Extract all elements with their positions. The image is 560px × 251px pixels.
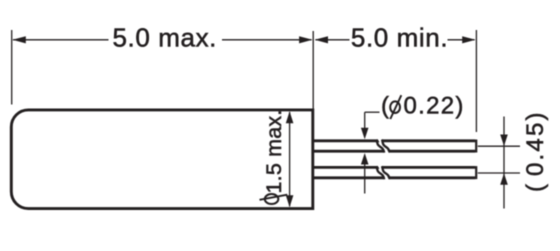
phi symbol drawn bbox=[265, 194, 279, 204]
dimension phi 1.5 max. (vertical, inside body) bbox=[260, 109, 294, 207]
svg-text:0.22): 0.22) bbox=[404, 92, 465, 119]
extension line middle (shared) bbox=[312, 31, 314, 109]
dimension 5.0 max. bbox=[12, 22, 312, 52]
lead 2 (bottom) outline bbox=[313, 166, 476, 179]
lead 1 (top) outline bbox=[313, 140, 476, 153]
svg-text:0.45): 0.45) bbox=[522, 110, 549, 176]
dimension 5.0 min. bbox=[315, 22, 476, 52]
lead 1 break gap bbox=[376, 139, 389, 153]
lead 2 break gap bbox=[376, 166, 389, 180]
phi symbol drawn bbox=[390, 101, 400, 113]
svg-text:(: ( bbox=[522, 184, 549, 192]
extension line right (5.0 min.) bbox=[475, 30, 477, 132]
dimension (phi 0.22) leader and arrows bbox=[361, 92, 465, 193]
crystal body outline bbox=[11, 110, 313, 209]
svg-text:5.0 min.: 5.0 min. bbox=[351, 22, 448, 52]
extension line left (5.0 max.) bbox=[11, 30, 13, 105]
dimension (0.45) right side bbox=[478, 110, 549, 208]
svg-text:(: ( bbox=[381, 92, 390, 119]
svg-text:5.0 max.: 5.0 max. bbox=[113, 22, 218, 52]
svg-text:1.5 max.: 1.5 max. bbox=[262, 109, 286, 193]
